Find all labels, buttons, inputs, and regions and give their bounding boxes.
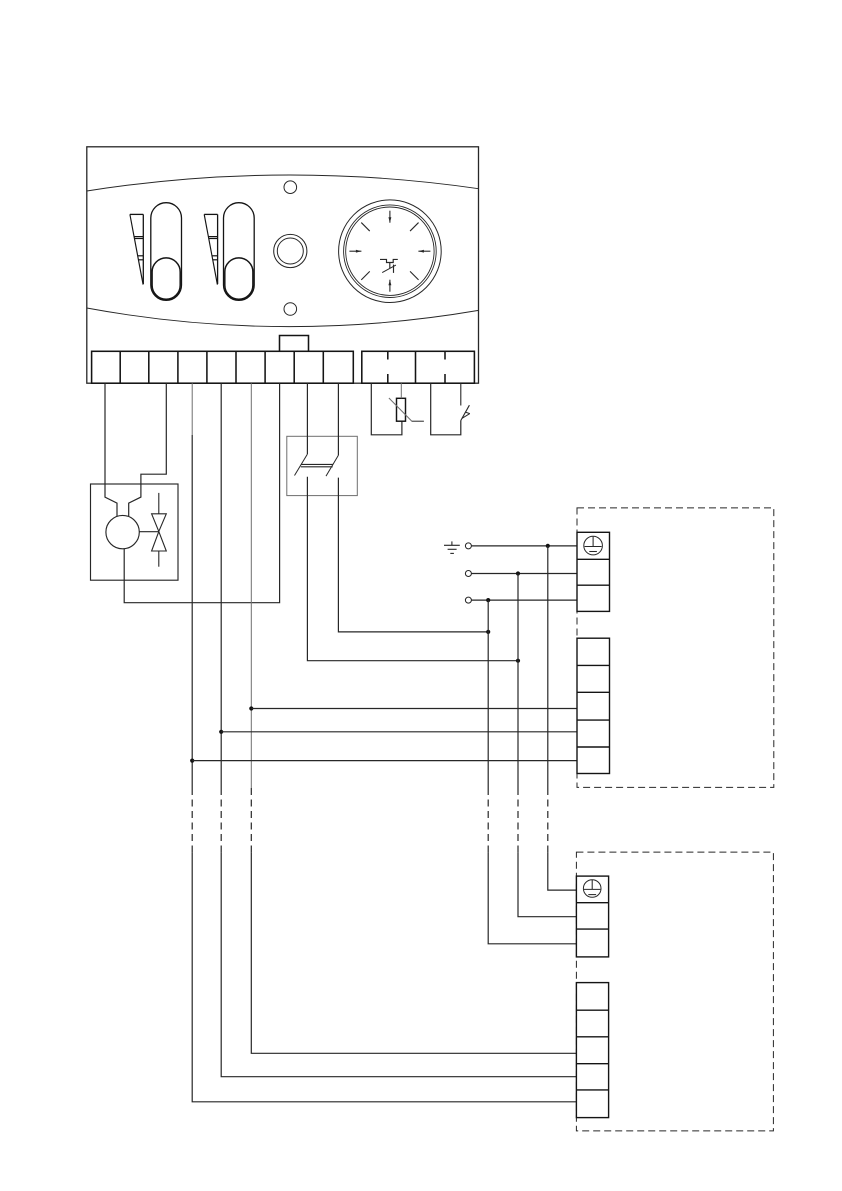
control unit U1 outer case [87, 147, 479, 383]
wire terminal 1 to pump (funnel left) [105, 383, 117, 516]
wire N to plug P1 terminal 2 [471, 573, 577, 575]
terminal strip key tab [280, 336, 309, 352]
supply connector point N [465, 571, 471, 577]
wire PE to plug P1 terminal 1 [471, 545, 577, 547]
NTC sensor top wire [400, 383, 402, 398]
gas valve V1 (bowtie) [152, 493, 167, 567]
wire terminal 3 to pump (jog and funnel right) [129, 383, 167, 516]
wire L to plug P1 terminal 3 [471, 599, 577, 601]
flue switch S1 contact blade [461, 405, 470, 420]
thermostat wire right (terminal 9) [326, 383, 338, 476]
terminal strip X2 (right block) [362, 351, 475, 383]
terminal strip X2 dividers [388, 351, 445, 383]
thermostat contact bars [301, 464, 333, 466]
junction terminal6 / plug P1 [249, 706, 253, 710]
timer clock dial rings [339, 200, 442, 303]
junction N branch [516, 571, 520, 575]
slider scale wedge 1 [130, 214, 143, 284]
thermostat wire left (terminal 8) [295, 383, 308, 475]
wire terminal 5 long run [221, 383, 576, 1076]
rotary knob (double circle) [274, 234, 307, 267]
wire terminal 4 long run [192, 383, 576, 1102]
flue switch upper stub [460, 383, 462, 405]
junction thermostat-right / line3 [486, 630, 490, 634]
junction L branch [486, 598, 490, 602]
wire PE branch down to plug P2 [548, 546, 577, 890]
NTC sensor diagonal [389, 398, 424, 421]
slider scale wedge 2 [204, 214, 217, 284]
pump motor M1 (circle) [106, 515, 139, 548]
supply connector point PE [465, 543, 471, 549]
mains earth symbol [444, 541, 460, 553]
panel fascia upper curve [87, 175, 479, 191]
slider knob 1 [152, 258, 180, 299]
unit B earth terminal symbol [583, 880, 601, 898]
junction terminal4 / plug P1 [190, 759, 194, 763]
external unit B dashed enclosure [576, 852, 773, 1131]
wire L branch down to plug P2 [488, 600, 576, 944]
wire loop to flue switch [431, 383, 461, 435]
unit B connector block upper (3 terminals) [576, 876, 608, 957]
wire pump return to terminal 7 [124, 383, 279, 603]
junction PE branch [546, 544, 550, 548]
timer dial centre switch symbol [380, 259, 398, 262]
screw bottom [284, 303, 297, 316]
unit A earth terminal symbol [584, 536, 603, 555]
wire thermostat right down to node [338, 478, 488, 632]
junction thermostat-left / line2 [516, 659, 520, 663]
supply connector point L [465, 597, 471, 603]
external unit A dashed enclosure [577, 508, 774, 788]
screw top [284, 181, 297, 194]
wire thermostat left down to node [307, 477, 518, 661]
panel fascia lower curve [87, 308, 479, 327]
timer dial tick marks [349, 211, 430, 292]
wire branch to plug P1 terminal c3 [251, 708, 577, 710]
wire loop to NTC sensor [371, 383, 402, 435]
unit A connector block lower (5 terminals) [577, 638, 610, 773]
NTC sensor R1 body [397, 398, 406, 421]
wire branch to plug P1 terminal c4 [221, 731, 577, 733]
unit A connector block upper (3 terminals) [577, 532, 610, 611]
slider slot 1 [151, 203, 182, 301]
terminal strip X1 dividers [120, 351, 323, 383]
unit B connector block lower (5 terminals) [576, 983, 608, 1118]
pump/valve unit enclosure box [91, 484, 179, 580]
link pump to valve [139, 531, 159, 533]
junction terminal5 / plug P1 [219, 730, 223, 734]
slider slot 2 [224, 203, 255, 301]
room thermostat box [287, 436, 358, 495]
wire branch to plug P1 terminal c5 [192, 760, 577, 762]
slider knob 2 [225, 258, 253, 299]
wire terminal 6 long run [251, 383, 576, 1053]
terminal strip X1 (left block) [92, 351, 354, 383]
wire N branch down to plug P2 [518, 574, 576, 917]
